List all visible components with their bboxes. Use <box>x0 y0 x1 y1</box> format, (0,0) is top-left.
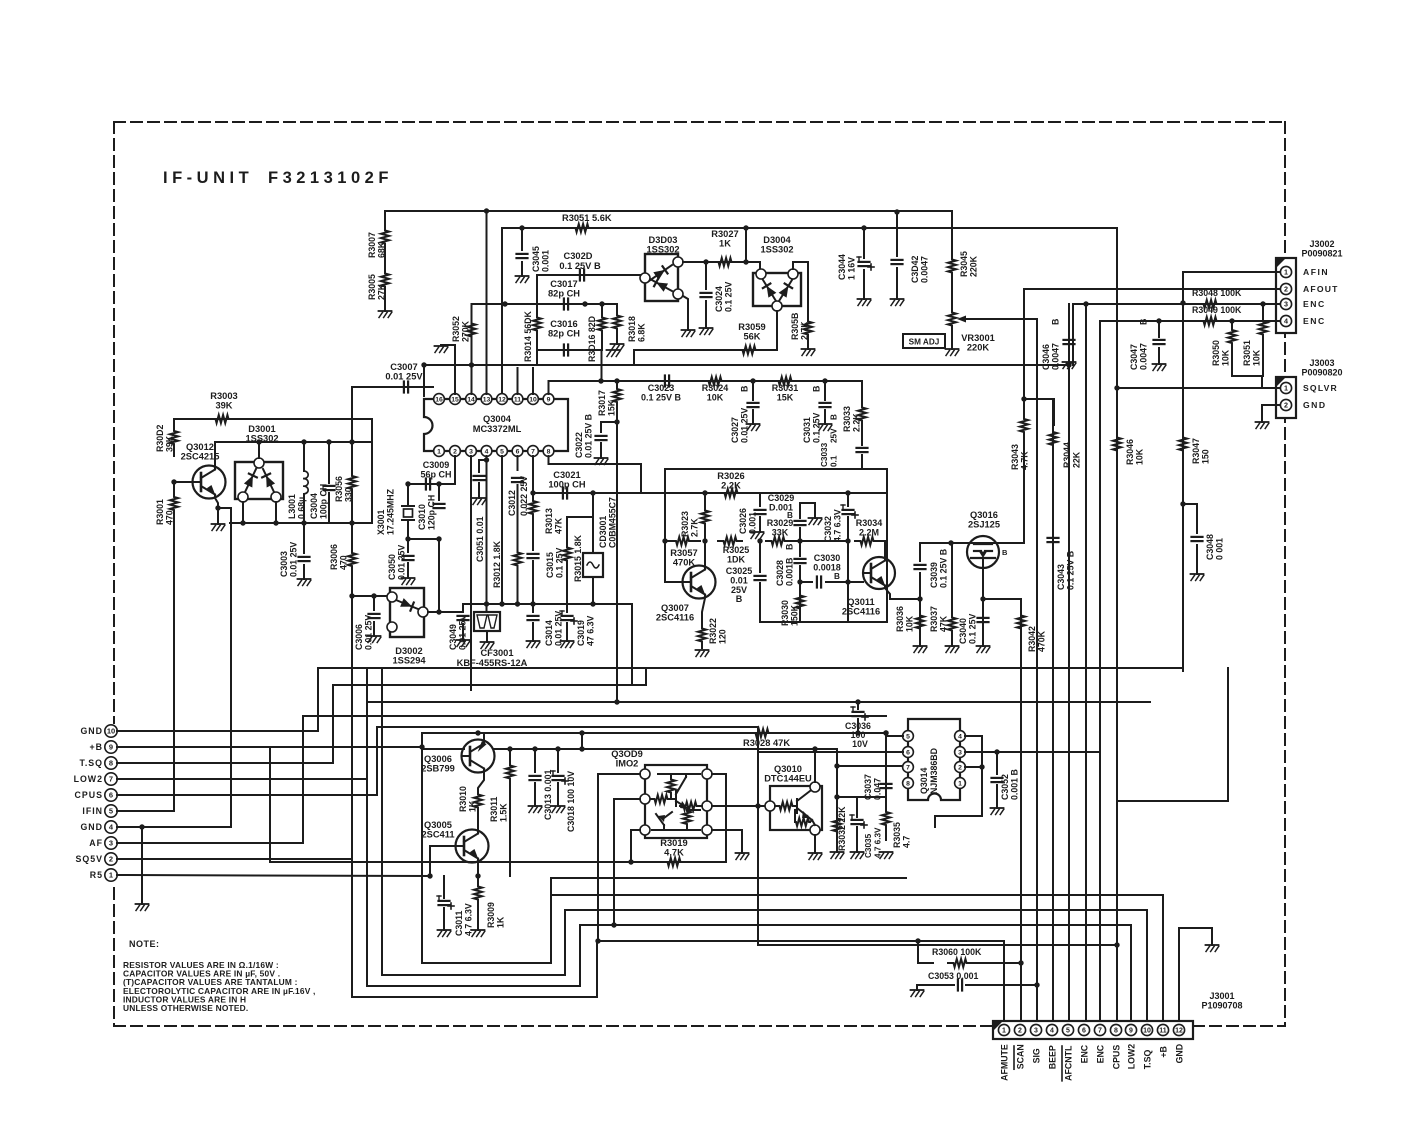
capacitor C3032 (electrolytic) <box>841 505 858 518</box>
label C3011 4.7 6.3V <box>454 903 474 936</box>
svg-text:R3012 1.8K: R3012 1.8K <box>492 540 502 588</box>
ground Q3012 <box>212 524 225 531</box>
wire R3033-C3033 <box>861 428 863 445</box>
node bus304 a <box>502 301 507 306</box>
label R3049 100K <box>1192 305 1242 315</box>
wire C3006-gnd <box>373 622 375 636</box>
resistor R3011 <box>506 749 514 795</box>
svg-text:C3003: C3003 <box>279 551 289 577</box>
svg-text:R3022: R3022 <box>708 618 718 644</box>
svg-text:C3043: C3043 <box>1056 564 1066 590</box>
label C3017 82p CH <box>548 279 580 299</box>
svg-text:R3056: R3056 <box>334 476 344 502</box>
label ENC pin4 <box>1303 316 1326 326</box>
wire y797 link <box>837 796 886 798</box>
pin J3003-1 <box>1280 382 1291 393</box>
svg-text:470: 470 <box>165 510 175 525</box>
wire Q3007 emitter <box>702 598 705 622</box>
wire C3028 down <box>799 541 801 556</box>
svg-text:P1090708: P1090708 <box>1201 1001 1242 1011</box>
pin D3004 top-left <box>756 269 766 279</box>
capacitor C3042 <box>892 260 903 264</box>
svg-text:B: B <box>834 572 840 581</box>
svg-text:4: 4 <box>485 448 489 455</box>
svg-text:12: 12 <box>498 396 506 403</box>
svg-text:1K: 1K <box>496 916 506 928</box>
pin D3003 left <box>640 273 650 283</box>
wire C3050 <box>407 539 409 552</box>
svg-text:0.01 25V: 0.01 25V <box>385 372 423 382</box>
svg-text:5: 5 <box>906 733 910 740</box>
svg-text:C3024: C3024 <box>714 286 724 312</box>
ground C3013 <box>529 806 542 813</box>
svg-text:L3001: L3001 <box>287 494 297 519</box>
svg-text:IF-UNIT: IF-UNIT <box>163 169 253 187</box>
label C3035 4.7 6.3V <box>864 827 883 858</box>
label J3001 SIG <box>1032 1048 1042 1063</box>
pin Q3014-8 <box>903 778 914 789</box>
wire CD3001 top <box>592 493 594 553</box>
wire C3024 <box>705 262 707 289</box>
ground pin15 <box>435 346 448 353</box>
node R3027/D3004 <box>743 259 748 264</box>
wire Q3011 collector <box>884 541 886 558</box>
wire C3018-gnd <box>557 783 559 806</box>
svg-text:ENC: ENC <box>1080 1044 1090 1063</box>
wire C3046-gnd <box>1068 348 1070 362</box>
label Q3011 2SC4116 <box>842 597 880 617</box>
resistor R3046 <box>1113 430 1121 458</box>
label C3047 0.0047 B <box>1129 319 1149 370</box>
pin J3001-2 <box>1014 1024 1025 1035</box>
svg-text:17.245MHZ: 17.245MHZ <box>386 488 396 535</box>
label R3028 47K <box>743 738 790 748</box>
wire riser x1100 (ENC2) <box>1099 321 1101 1024</box>
label D3004 1SS302 <box>760 235 793 255</box>
wire Q3012 emitter <box>215 498 218 524</box>
pin edge-9 +B <box>90 741 118 753</box>
wire Q3016-R3042 <box>983 598 1021 600</box>
svg-text:0.01 25V: 0.01 25V <box>289 542 299 577</box>
capacitor C3047 <box>1154 340 1165 344</box>
svg-text:CD3001: CD3001 <box>598 516 608 548</box>
resistor R3047 <box>1179 430 1187 458</box>
svg-text:150: 150 <box>1201 449 1211 464</box>
wire C3030 link <box>800 581 812 583</box>
svg-text:3: 3 <box>1284 300 1288 309</box>
wire D3004 bottom <box>776 311 778 350</box>
label C3016 82p CH <box>548 319 580 339</box>
resistor R3013 <box>529 493 537 522</box>
wire Q3006-R3010 <box>478 771 484 791</box>
pin Q3004-5 <box>497 446 508 457</box>
svg-text:C3051 0.01: C3051 0.01 <box>475 516 485 562</box>
svg-text:3: 3 <box>109 839 113 848</box>
box SM ADJ <box>903 334 945 348</box>
pin Q3009 r2 <box>702 801 712 811</box>
wire x760 lower <box>759 541 761 572</box>
label C3026 0.001 <box>738 508 758 534</box>
svg-text:R3048 100K: R3048 100K <box>1192 288 1242 298</box>
svg-text:1SS302: 1SS302 <box>760 245 793 255</box>
wire y727 CPUS link <box>377 727 758 806</box>
wire R3005-gnd <box>384 289 386 311</box>
wire pin10 stub <box>532 368 534 394</box>
capacitor C3022 <box>596 436 607 440</box>
wire C3014 <box>532 604 534 612</box>
wire Q3009 r1 out <box>712 774 726 862</box>
wire C3027 top <box>752 381 754 400</box>
svg-text:GND: GND <box>80 822 103 832</box>
ground R3018 <box>611 344 624 351</box>
label R3011 1.5K <box>489 796 509 822</box>
label C3053 0.001 <box>928 971 978 981</box>
svg-text:R3052: R3052 <box>451 316 461 342</box>
label Q3012 2SC4215 <box>181 442 220 462</box>
wire C3020 net <box>537 275 641 304</box>
label J3001 BEEP <box>1048 1045 1058 1069</box>
label J3001 AFCNTL <box>1062 1045 1074 1081</box>
node rail749 Q3010 <box>812 746 817 751</box>
svg-text:C3016: C3016 <box>550 319 577 329</box>
pin J3001-3 <box>1030 1024 1041 1035</box>
label C3032 4.7 6.3V <box>823 509 843 542</box>
svg-text:0.1: 0.1 <box>830 455 839 467</box>
label R3059 56K <box>738 322 765 342</box>
svg-text:82p CH: 82p CH <box>548 289 580 299</box>
ground R3005 <box>379 311 392 318</box>
wire link x537 <box>536 350 538 365</box>
label X3001 17.245MHZ <box>376 488 396 535</box>
resistor R3031 <box>773 377 797 385</box>
capacitor C3004 <box>324 442 335 523</box>
wire C3022 link <box>601 422 617 432</box>
svg-text:10V: 10V <box>852 739 868 749</box>
node R3027 left <box>703 259 708 264</box>
wire R3007-R3005 <box>384 246 386 271</box>
svg-text:0.0047: 0.0047 <box>920 256 930 283</box>
wire D3002 right link <box>428 611 463 613</box>
capacitor C3040 <box>978 618 989 622</box>
node R3049/R3050 <box>1229 318 1234 323</box>
pin Q3014-5 <box>903 731 914 742</box>
svg-text:2: 2 <box>1284 401 1288 410</box>
wire C3042-gnd <box>896 268 898 299</box>
svg-text:B: B <box>830 414 839 420</box>
node x837 y797 <box>834 794 839 799</box>
wire Q3007 collector <box>704 541 706 567</box>
resistor R3019 <box>662 858 686 866</box>
svg-text:2SB799: 2SB799 <box>421 764 455 774</box>
wire C3014-gnd <box>532 623 534 641</box>
node bus/R3027 drop <box>743 225 748 230</box>
svg-text:C3052: C3052 <box>1000 774 1010 800</box>
wire top supply bus <box>385 211 952 230</box>
node box top right <box>845 490 850 495</box>
svg-text:R3017: R3017 <box>597 390 607 416</box>
svg-text:Q3016: Q3016 <box>970 510 998 520</box>
node rail/C3031 <box>822 378 827 383</box>
label C3040 0.1 25V <box>958 614 978 644</box>
pin Q3004-16 <box>434 394 445 405</box>
svg-text:0.01 25V: 0.01 25V <box>740 408 750 443</box>
wire R3019 rail <box>270 861 726 863</box>
resistor R3012 <box>514 548 522 570</box>
ground CF3001 <box>481 642 494 649</box>
resistor R3007 <box>381 228 389 246</box>
label C3033 0.1 25V B <box>820 414 839 467</box>
capacitor C3029 <box>795 521 806 525</box>
wire C3051-gnd <box>478 483 480 498</box>
wire R3017 down <box>616 410 618 702</box>
capacitor C3016 <box>564 345 568 356</box>
op-amp U Q3004 MC3372ML body <box>424 399 568 451</box>
svg-text:5: 5 <box>1066 1028 1070 1035</box>
wire x270 riser <box>269 747 271 862</box>
wire bus716 drop <box>302 716 304 843</box>
label C3023 0.1 25V B <box>641 383 682 403</box>
svg-text:SCAN: SCAN <box>1016 1044 1026 1069</box>
wire Q3010 bot out <box>814 835 816 853</box>
node bus/C3042 junction <box>894 209 899 214</box>
label C3009 56p CH <box>420 460 451 480</box>
pin edge-2 SQ5V <box>76 853 118 865</box>
wire Q3009 l2 out <box>614 799 640 925</box>
wire y517 link <box>567 516 593 518</box>
svg-text:C3025: C3025 <box>726 566 753 576</box>
capacitor C3030 <box>817 577 821 588</box>
label C3007 0.01 25V <box>385 362 423 382</box>
capacitor C3051 <box>474 476 485 480</box>
svg-text:15: 15 <box>451 396 459 403</box>
label R3002 39K <box>155 425 175 452</box>
svg-text:C3015: C3015 <box>545 552 555 578</box>
wire pin8 route <box>549 456 642 493</box>
svg-text:4.7K: 4.7K <box>664 848 684 858</box>
wire AFOUT link <box>1024 399 1054 425</box>
svg-text:LOW2: LOW2 <box>1127 1044 1137 1070</box>
wire C3035-gnd <box>856 827 858 852</box>
capacitor C3053 <box>958 980 962 991</box>
wire emitter to pin4 edge <box>218 508 231 827</box>
wire C3022-gnd <box>600 443 602 458</box>
wire R3013-C3015 <box>532 522 534 550</box>
svg-text:1: 1 <box>958 780 962 787</box>
node bus365 left <box>421 362 426 367</box>
wire pin11 stub <box>517 368 519 394</box>
svg-text:0.68µ: 0.68µ <box>297 497 307 519</box>
pin Q3014-6 <box>903 747 914 758</box>
wire C3030 to base <box>826 581 863 583</box>
Q3010 inner <box>775 791 815 826</box>
svg-text:D3001: D3001 <box>248 424 275 434</box>
capacitor C3035 (electrolytic) <box>850 815 867 828</box>
capacitor C3010 <box>434 504 445 508</box>
wire pin3 drop <box>470 456 472 690</box>
svg-text:C3D42: C3D42 <box>910 256 920 283</box>
label C3006 0.01 25V <box>354 615 374 650</box>
wire Q3009 l3 out <box>631 830 640 862</box>
wire Q3007 base riser <box>665 468 862 470</box>
svg-text:0.1 25V: 0.1 25V <box>812 413 822 443</box>
svg-text:7: 7 <box>109 775 113 784</box>
svg-text:2: 2 <box>109 855 113 864</box>
node bus702/R3017 <box>614 699 619 704</box>
svg-text:Q3011: Q3011 <box>847 597 874 607</box>
svg-text:R3036: R3036 <box>895 606 905 632</box>
label J3001 ENC <box>1096 1044 1106 1063</box>
svg-text:47K: 47K <box>939 615 949 632</box>
svg-text:AFMUTE: AFMUTE <box>1000 1044 1010 1081</box>
label J3001 ENC <box>1080 1044 1090 1063</box>
wire C3031-gnd <box>824 410 826 424</box>
wire C3024-gnd <box>705 301 707 328</box>
node bus702/C3036 <box>855 699 860 704</box>
wire pin6 drop <box>517 456 519 470</box>
svg-text:R3023: R3023 <box>680 511 690 537</box>
resistor R3056 <box>348 442 356 523</box>
wire riser x1069 (bus/AFCNTL) <box>1068 304 1070 1024</box>
ground C3026 <box>751 532 764 539</box>
ground C3018 <box>552 806 565 813</box>
svg-text:56K: 56K <box>743 332 760 342</box>
resistor R3049 <box>1198 317 1222 325</box>
wire C3048 link <box>1183 504 1197 533</box>
ground J3003 pin2 <box>1256 422 1269 429</box>
diode D3001 right <box>262 469 275 492</box>
resistor R3057 <box>665 537 700 545</box>
wire R3059 net <box>634 349 777 351</box>
resistor R3043 <box>1020 399 1028 452</box>
label R3003 39K <box>210 391 237 411</box>
svg-text:C3033: C3033 <box>820 442 829 467</box>
wire riser x1085 (ENC) <box>1085 304 1087 1024</box>
capacitor C3045 <box>517 254 528 258</box>
svg-text:SQLVR: SQLVR <box>1303 383 1338 393</box>
transistor Q3016 (FET) <box>967 536 999 568</box>
wire y878 <box>551 877 906 879</box>
resistor R3042 <box>1017 604 1025 640</box>
node chain x800 <box>797 538 802 543</box>
node pin5 link <box>883 730 888 735</box>
resistor R3005 <box>381 271 389 289</box>
label C3050 0.01 25V <box>387 545 407 580</box>
svg-text:10: 10 <box>1143 1028 1151 1035</box>
diode D3004 right <box>779 280 793 301</box>
svg-text:B: B <box>785 544 795 550</box>
resistor R3035 <box>882 797 890 840</box>
wire pin9 rail <box>549 381 863 400</box>
label R3047 150 <box>1191 438 1211 464</box>
wire C3026 down <box>759 517 761 532</box>
pin Q3004-15 <box>450 394 461 405</box>
label R3044 22K <box>1062 442 1082 468</box>
svg-text:R3047: R3047 <box>1191 438 1201 464</box>
svg-text:2.2K: 2.2K <box>721 481 741 491</box>
wire Q3006 top <box>483 733 485 740</box>
svg-text:R3010: R3010 <box>458 786 468 812</box>
svg-text:C3009: C3009 <box>423 460 450 470</box>
resistor R3052 <box>468 318 476 342</box>
svg-text:2SC4116: 2SC4116 <box>842 607 880 617</box>
svg-text:22K: 22K <box>1072 451 1082 468</box>
resistor R3032 <box>833 810 841 840</box>
pin Q3014-3 <box>955 747 966 758</box>
wire R3010-Q3005 <box>477 811 479 830</box>
pin D3002 r <box>418 607 428 617</box>
svg-text:0.01: 0.01 <box>730 576 748 586</box>
node rail/x601 <box>598 378 603 383</box>
node Q3010 in <box>755 803 760 808</box>
node Q3016/C3040 <box>980 596 985 601</box>
wire C3025 down <box>759 583 761 622</box>
diode D3001 box <box>235 462 283 499</box>
label J3001 T.SQ <box>1143 1050 1153 1070</box>
svg-text:0.1 25V: 0.1 25V <box>968 614 978 644</box>
diode D3002 box <box>390 588 424 637</box>
wire R3060 branch <box>918 941 933 963</box>
svg-text:0.022 25V: 0.022 25V <box>519 476 529 516</box>
wire C3012-R3012 <box>517 485 519 548</box>
svg-text:100p CH: 100p CH <box>548 480 585 490</box>
label R3015 1.8K <box>573 534 583 582</box>
label C3019 47 6.3V <box>576 616 596 646</box>
svg-text:15K: 15K <box>607 399 617 416</box>
svg-text:2.7K: 2.7K <box>690 518 700 537</box>
resistor R3024 <box>703 377 727 385</box>
svg-text:1: 1 <box>1284 384 1288 393</box>
wire pin7 drop <box>532 456 534 493</box>
pin Q3004-8 <box>543 446 554 457</box>
svg-text:39K: 39K <box>215 401 232 411</box>
svg-text:C3037: C3037 <box>863 774 873 800</box>
node bus365/riser <box>1066 362 1071 367</box>
svg-text:C3030: C3030 <box>814 553 841 563</box>
svg-text:1: 1 <box>1284 268 1288 277</box>
wire R3043 to gate <box>920 452 1024 543</box>
label C3039 0.1 25V B <box>929 549 949 588</box>
label C3027 0.01 25V B <box>730 386 750 443</box>
wire C3045 <box>521 228 523 250</box>
wire C3019 <box>566 604 568 612</box>
svg-text:1SS294: 1SS294 <box>392 656 426 666</box>
diode D3003 upper <box>649 265 672 281</box>
capacitor C3003 <box>299 557 310 561</box>
svg-text:ENC: ENC <box>1096 1044 1106 1063</box>
node rail733/C3036 <box>855 730 860 735</box>
wire C3052-gnd <box>996 785 998 808</box>
pin Q3010 bot <box>810 825 820 835</box>
wire Q3006 base <box>423 747 464 749</box>
pin edge-10 GND <box>80 725 117 737</box>
wire riser9 top <box>1130 924 1132 926</box>
svg-text:B: B <box>1139 319 1149 325</box>
wire bus716 <box>303 715 886 717</box>
node bus523 b <box>273 520 278 525</box>
svg-text:9: 9 <box>1129 1028 1133 1035</box>
wire y816 out <box>935 816 982 827</box>
label C3012 0.022 25V <box>507 476 529 516</box>
svg-text:Q3OD9: Q3OD9 <box>611 749 643 759</box>
wire bus350 <box>537 344 602 350</box>
wire R3034 to box edge <box>879 540 887 542</box>
node C3044 top <box>861 225 866 230</box>
svg-text:1K: 1K <box>468 800 478 812</box>
wire C3003-gnd <box>303 565 305 579</box>
wire R3059 stub <box>633 350 635 365</box>
pin J3002-1 <box>1280 266 1291 277</box>
resistor R3058 <box>804 318 812 338</box>
